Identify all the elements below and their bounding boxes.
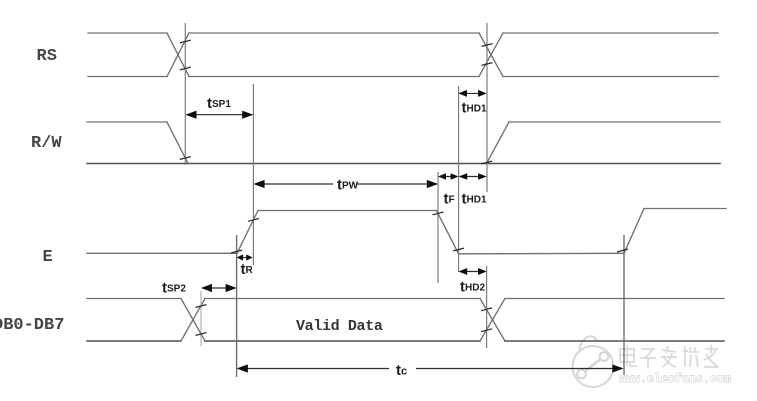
tick R/W rise base — [481, 161, 492, 164]
RS bus high line left — [88, 32, 167, 34]
tick R/W fall — [180, 157, 191, 160]
tick RS cross1 lower — [180, 67, 191, 70]
tick E rise1 base — [231, 250, 242, 253]
DB crossover 1 — [181, 299, 205, 342]
tick E rise1 upper — [248, 219, 259, 222]
E high segment right — [644, 208, 726, 210]
watermark curl — [579, 336, 597, 350]
svg-text:www.elecfans.com: www.elecfans.com — [619, 373, 731, 386]
svg-text:RS: RS — [37, 47, 57, 66]
DB bus valid-data segment — [205, 298, 480, 300]
svg-text:DB0-DB7: DB0-DB7 — [0, 316, 64, 335]
watermark CJK text 电子发烧友 (approximated glyph blocks) — [620, 345, 719, 368]
RS crossover 2 — [479, 33, 503, 77]
tick E fall top — [433, 212, 444, 215]
R/W falling edge — [167, 122, 188, 164]
vertical line tSP1 right x=253 — [252, 84, 254, 265]
R/W low baseline — [87, 163, 720, 165]
tick DB cross2 lower — [481, 329, 492, 332]
RS bus middle segment — [189, 32, 479, 34]
tick DB cross1 upper — [196, 305, 207, 308]
vertical line at E fall end x=458.6 — [458, 86, 460, 272]
tHD1 arrow upper — [460, 92, 485, 94]
tPW arrow — [255, 183, 333, 185]
light vertical at DB transition x=201 — [200, 291, 202, 346]
R/W rising edge — [487, 122, 510, 164]
RS crossover 1 — [167, 33, 189, 77]
tick RS cross1 upper — [180, 40, 191, 43]
tick RS cross2 upper — [482, 44, 493, 47]
E high segment — [258, 210, 437, 212]
tick DB cross1 lower — [196, 333, 207, 336]
tSP1 arrow — [187, 114, 252, 116]
DB bus low line left — [87, 340, 181, 342]
R/W high segment left — [87, 121, 167, 123]
watermark logo circle — [573, 336, 614, 387]
watermark needle line — [584, 358, 602, 372]
tick DB cross2 upper — [481, 308, 492, 311]
tF arrow — [440, 176, 457, 178]
tR arrow — [238, 257, 251, 259]
E low segment left — [87, 252, 237, 254]
DB bus high line left — [87, 298, 181, 300]
svg-text:tc: tc — [396, 362, 407, 379]
svg-text:R/W: R/W — [31, 134, 62, 153]
DB crossover 2 — [480, 299, 505, 342]
tick E fall bottom — [453, 248, 464, 251]
tHD1 arrow lower — [460, 176, 485, 178]
vertical line at RS transition 2 x=487 — [486, 23, 488, 192]
tSP2 arrow — [203, 287, 235, 289]
vertical line at E rise 2 x=624 — [623, 235, 625, 375]
DB bus right segment — [505, 298, 724, 300]
vertical line at E rise x=236.5 — [236, 235, 238, 377]
RS bus right segment — [503, 32, 718, 34]
E falling edge — [437, 211, 459, 254]
svg-text:E: E — [43, 248, 53, 267]
vertical line at E fall start x=438 — [437, 172, 439, 283]
tHD2 arrow — [460, 271, 485, 273]
E rising edge 1 — [237, 211, 258, 254]
svg-text:Valid Data: Valid Data — [296, 318, 383, 335]
R/W high segment right — [509, 121, 720, 123]
tick RS cross2 lower — [482, 63, 493, 66]
tc arrow — [238, 368, 389, 370]
E rising edge 2 — [624, 209, 644, 254]
vertical line at RS transition x=185 — [184, 23, 186, 165]
tick E rise2 base — [617, 249, 628, 252]
E low segment 2 — [459, 252, 624, 255]
RS bus low line left — [88, 76, 167, 78]
vertical line tHD2 right x=486.6 — [486, 266, 488, 348]
